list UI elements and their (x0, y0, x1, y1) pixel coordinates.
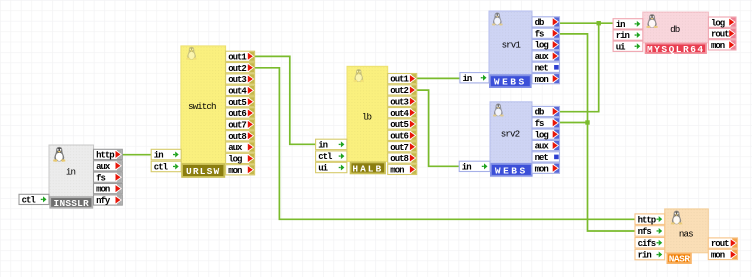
svg-text:log: log (535, 130, 549, 140)
input port in (460, 73, 489, 84)
svg-text:out6: out6 (228, 109, 246, 119)
input port cifs (635, 238, 665, 249)
svg-text:lb: lb (362, 112, 372, 123)
tux icon srv1 (492, 12, 503, 25)
output port log (708, 17, 736, 28)
output port net (532, 62, 560, 73)
svg-text:db: db (535, 108, 544, 118)
svg-text:fs: fs (96, 173, 105, 183)
tux icon srv2 (493, 103, 504, 116)
output port http (94, 149, 123, 160)
output port mon (94, 184, 123, 195)
label WEBS srv1 (489, 74, 532, 88)
svg-text:in: in (66, 166, 76, 177)
output port log (226, 153, 255, 164)
label WEBS srv2 (490, 163, 533, 177)
output port out8 (226, 131, 255, 142)
svg-text:out6: out6 (390, 131, 408, 141)
svg-text:ctl: ctl (154, 163, 169, 173)
svg-text:out4: out4 (390, 109, 409, 119)
svg-text:out8: out8 (228, 132, 246, 142)
input port ui (613, 41, 643, 52)
tux icon switch (186, 47, 197, 60)
output port mon (708, 249, 737, 260)
tux icon db (646, 14, 658, 28)
svg-text:aux: aux (535, 52, 550, 62)
svg-text:nas: nas (679, 228, 693, 239)
output port mon (532, 74, 560, 85)
svg-text:aux: aux (535, 142, 550, 152)
svg-text:fs: fs (535, 29, 544, 39)
svg-text:cifs: cifs (638, 239, 656, 249)
block lb (HALB) body (347, 66, 388, 161)
output port out7 (388, 142, 417, 153)
output port nfy (94, 195, 123, 206)
svg-text:log: log (711, 18, 725, 28)
input port ctl (151, 161, 181, 172)
block srv2 (WEBS) body (490, 102, 532, 163)
svg-text:http: http (96, 151, 114, 161)
input port http (635, 214, 665, 225)
output port log (532, 129, 560, 140)
label MYSQLR64 (645, 43, 707, 55)
svg-text:out1: out1 (390, 75, 409, 85)
input port rin (613, 30, 643, 41)
svg-text:WEBS: WEBS (495, 165, 528, 176)
wire switch.out1 to lb.in (254, 56, 316, 144)
output port out6 (388, 130, 417, 141)
output port out6 (226, 108, 255, 119)
tux icon lb (353, 69, 364, 82)
svg-text:rout: rout (711, 239, 729, 249)
output port out4 (226, 85, 255, 96)
svg-text:nfs: nfs (638, 227, 652, 237)
svg-text:URLSW: URLSW (186, 166, 221, 177)
output port out2 (226, 63, 255, 74)
svg-text:db: db (670, 24, 680, 35)
svg-text:HALB: HALB (352, 163, 383, 174)
block switch (URLSW) body (181, 46, 226, 163)
svg-text:mon: mon (390, 166, 404, 176)
svg-text:MYSQLR64: MYSQLR64 (647, 44, 705, 55)
output port out4 (388, 108, 417, 119)
svg-text:mon: mon (535, 164, 549, 174)
svg-text:out2: out2 (390, 86, 408, 96)
block nas (NASR) body (665, 209, 709, 253)
output port out7 (226, 119, 255, 130)
output port out5 (388, 119, 417, 130)
output port fs (532, 118, 560, 129)
label HALB (350, 162, 386, 175)
svg-text:ctl: ctl (22, 196, 37, 206)
svg-text:net: net (535, 153, 549, 163)
svg-text:aux: aux (96, 162, 111, 172)
output port out8 (388, 153, 417, 164)
svg-text:db: db (535, 18, 544, 28)
svg-text:out3: out3 (228, 75, 246, 85)
output port db (532, 106, 560, 117)
output port aux (532, 51, 560, 62)
svg-text:log: log (228, 155, 242, 165)
input port ui (316, 162, 347, 173)
output port mon (708, 40, 736, 51)
svg-text:aux: aux (228, 143, 243, 153)
output port rout (708, 238, 737, 249)
block in (INSSLR) body (49, 145, 94, 197)
svg-text:rin: rin (616, 31, 630, 41)
input port rin (635, 249, 665, 260)
svg-text:log: log (535, 41, 549, 51)
tux icon nas (671, 211, 683, 225)
output port out3 (226, 74, 255, 85)
svg-text:INSSLR: INSSLR (54, 198, 90, 209)
output port fs (532, 28, 560, 39)
output port out1 (226, 51, 255, 62)
svg-text:in: in (463, 74, 472, 84)
output port fs (94, 172, 123, 183)
output port rout (708, 28, 736, 39)
svg-text:mon: mon (228, 166, 242, 176)
output port out5 (226, 97, 255, 108)
svg-text:fs: fs (535, 119, 544, 129)
input port in (613, 19, 643, 30)
tux icon in (53, 147, 65, 162)
wire switch.out2 to nas.http (254, 68, 636, 220)
input port in (151, 149, 181, 160)
junction fs net (585, 120, 589, 124)
input port in (459, 161, 490, 172)
wire srv2.fs to junction (558, 122, 587, 124)
wire in.http to switch.in (121, 154, 151, 156)
svg-text:out5: out5 (228, 98, 246, 108)
svg-text:switch: switch (188, 101, 216, 112)
wire lb.out2 to srv2.in (416, 90, 460, 166)
output port mon (532, 163, 560, 174)
svg-text:nfy: nfy (96, 196, 111, 206)
wire lb.out1 to srv1.in (416, 77, 460, 79)
svg-text:in: in (616, 20, 625, 30)
output port out1 (388, 74, 417, 85)
wire srv1.db to db.in (558, 22, 613, 24)
svg-text:rout: rout (711, 30, 729, 40)
svg-text:out8: out8 (390, 154, 408, 164)
svg-text:out7: out7 (228, 121, 246, 131)
wire srv1.fs down to nas.nfs (558, 34, 635, 231)
svg-text:out3: out3 (390, 97, 408, 107)
output port aux (226, 142, 255, 153)
svg-text:out2: out2 (228, 64, 246, 74)
svg-text:ctl: ctl (318, 152, 333, 162)
output port out3 (388, 96, 417, 107)
block srv1 (WEBS) body (489, 11, 532, 74)
output port log (532, 40, 560, 51)
svg-text:mon: mon (711, 251, 725, 261)
svg-text:in: in (462, 162, 471, 172)
label NASR (667, 253, 692, 265)
svg-text:out5: out5 (390, 120, 408, 130)
svg-text:out1: out1 (228, 52, 247, 62)
svg-text:rin: rin (638, 251, 652, 261)
block db (MYSQLR64) body (643, 12, 709, 43)
wire srv2.db to junction (558, 23, 598, 112)
svg-text:out7: out7 (390, 143, 408, 153)
svg-text:NASR: NASR (669, 254, 691, 265)
junction db net (597, 21, 601, 25)
output port mon (226, 165, 255, 176)
svg-text:srv2: srv2 (501, 129, 520, 140)
output port aux (94, 161, 123, 172)
svg-text:net: net (535, 63, 549, 73)
output port aux (532, 140, 560, 151)
label INSSLR (49, 196, 93, 209)
input port ctl (316, 151, 347, 162)
output port out2 (388, 85, 417, 96)
output port db (532, 17, 560, 28)
svg-text:in: in (318, 141, 327, 151)
svg-text:mon: mon (96, 185, 110, 195)
input port nfs (635, 226, 665, 237)
svg-text:out4: out4 (228, 86, 247, 96)
input port in (316, 139, 347, 150)
input port ctl (19, 194, 49, 205)
svg-text:http: http (638, 215, 656, 225)
output port net (532, 152, 560, 163)
svg-text:srv1: srv1 (502, 39, 522, 50)
svg-text:mon: mon (711, 41, 725, 51)
svg-text:mon: mon (535, 75, 549, 85)
label URLSW (181, 163, 225, 178)
svg-text:WEBS: WEBS (494, 77, 527, 88)
output port mon (388, 164, 417, 175)
svg-text:in: in (154, 151, 163, 161)
